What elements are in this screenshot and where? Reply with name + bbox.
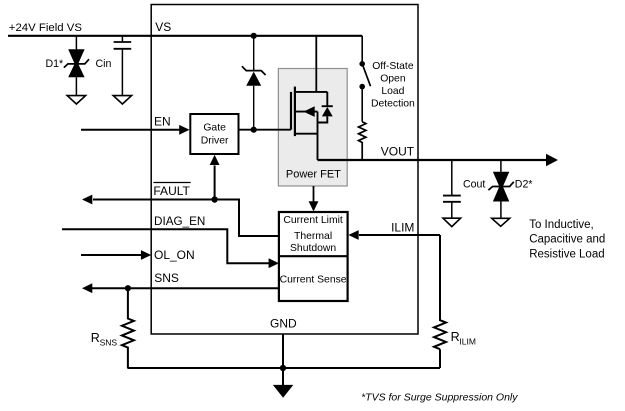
svg-text:Shutdown: Shutdown bbox=[290, 243, 336, 254]
svg-text:Off-State: Off-State bbox=[372, 61, 414, 72]
svg-text:Thermal: Thermal bbox=[294, 231, 332, 242]
svg-text:Gate: Gate bbox=[203, 123, 226, 134]
svg-text:R: R bbox=[91, 331, 100, 345]
svg-text:SNS: SNS bbox=[154, 271, 179, 285]
svg-text:OL_ON: OL_ON bbox=[154, 248, 195, 262]
svg-text:GND: GND bbox=[270, 317, 297, 331]
svg-text:ILIM: ILIM bbox=[459, 337, 476, 347]
svg-text:Driver: Driver bbox=[201, 135, 229, 146]
svg-text:Open: Open bbox=[380, 74, 406, 85]
svg-text:Capacitive and: Capacitive and bbox=[529, 234, 605, 246]
svg-text:Detection: Detection bbox=[371, 98, 415, 109]
svg-text:DIAG_EN: DIAG_EN bbox=[154, 215, 205, 228]
svg-text:VOUT: VOUT bbox=[381, 144, 415, 158]
svg-text:Cin: Cin bbox=[96, 58, 112, 70]
svg-text:D1*: D1* bbox=[46, 58, 64, 70]
svg-text:Current Limit: Current Limit bbox=[283, 215, 343, 226]
svg-text:R: R bbox=[451, 330, 460, 344]
svg-text:VS: VS bbox=[155, 20, 171, 34]
svg-text:SNS: SNS bbox=[100, 338, 118, 348]
svg-text:To Inductive,: To Inductive, bbox=[529, 219, 594, 231]
svg-text:Resistive Load: Resistive Load bbox=[529, 248, 604, 260]
svg-text:Power FET: Power FET bbox=[286, 168, 341, 180]
svg-text:EN: EN bbox=[154, 114, 171, 128]
svg-text:+24V Field VS: +24V Field VS bbox=[9, 22, 83, 34]
svg-text:FAULT: FAULT bbox=[153, 184, 190, 198]
svg-text:Current Sense: Current Sense bbox=[280, 275, 347, 286]
svg-text:D2*: D2* bbox=[515, 179, 533, 191]
svg-text:*TVS for Surge Suppression Onl: *TVS for Surge Suppression Only bbox=[361, 392, 518, 404]
svg-text:ILIM: ILIM bbox=[391, 221, 414, 235]
svg-text:Cout: Cout bbox=[463, 179, 485, 191]
svg-text:Load: Load bbox=[381, 86, 404, 97]
